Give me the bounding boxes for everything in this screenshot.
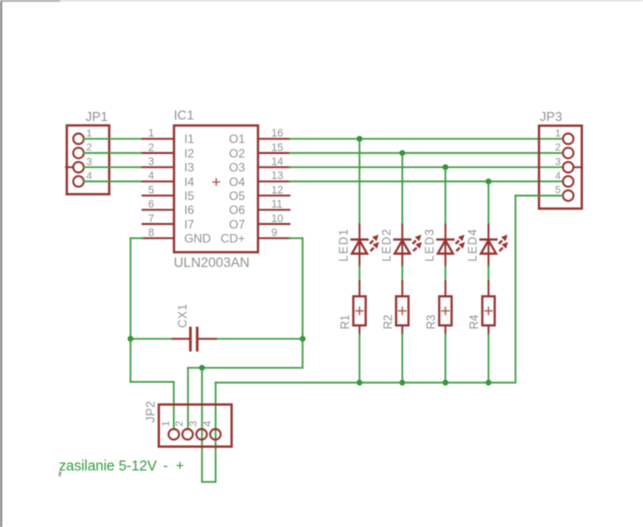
IC1 pin 13 (O4) — [229, 170, 290, 189]
svg-text:O4: O4 — [229, 175, 245, 189]
junction node bus/R2 — [399, 380, 405, 386]
wire net O1 down to LED1 — [359, 139, 361, 225]
LED LED3 — [437, 225, 465, 267]
svg-text:2: 2 — [86, 142, 92, 154]
wire IC1 O4 to JP3 pin 4 — [290, 180, 563, 182]
net label zasilanie 5-12V - + — [59, 459, 184, 475]
svg-text:5: 5 — [555, 184, 561, 196]
svg-text:I7: I7 — [184, 217, 194, 231]
svg-text:14: 14 — [271, 156, 283, 168]
IC1 pin 7 (I7) — [143, 213, 195, 232]
svg-text:I2: I2 — [184, 146, 194, 160]
wire LED4 to R4 — [488, 266, 490, 281]
svg-text:LED2: LED2 — [381, 228, 393, 262]
LED LED1 — [352, 225, 380, 267]
junction node LED2 branch — [399, 150, 405, 156]
svg-text:LED4: LED4 — [468, 228, 480, 262]
svg-text:3: 3 — [188, 421, 200, 427]
svg-text:R4: R4 — [469, 314, 481, 329]
junction node LED4 branch — [486, 179, 492, 185]
svg-text:1: 1 — [555, 127, 561, 139]
svg-text:11: 11 — [271, 199, 282, 211]
IC1 pin 14 (O3) — [229, 156, 290, 175]
svg-text:CX1: CX1 — [178, 303, 190, 327]
IC1 pin 3 (I3) — [143, 156, 195, 175]
capacitor CX1 — [173, 328, 216, 350]
svg-text:zasilanie 5-12V: zasilanie 5-12V — [59, 459, 157, 475]
svg-text:O3: O3 — [229, 161, 245, 175]
connector JP2 — [159, 405, 232, 447]
svg-text:2: 2 — [148, 142, 154, 154]
LED LED4 — [481, 225, 509, 267]
wire IC1 O3 to JP3 pin 3 — [290, 166, 563, 168]
svg-text:I5: I5 — [184, 189, 194, 203]
svg-text:LED3: LED3 — [424, 228, 436, 262]
IC IC1 body — [174, 126, 258, 253]
wire IC1 pin 9 CD+ net — [290, 238, 303, 339]
svg-text:I1: I1 — [184, 132, 194, 146]
junction node bus/R4 — [486, 380, 492, 386]
wire JP1 pin 4 to IC1 pin 4 — [84, 180, 143, 182]
svg-text:12: 12 — [271, 184, 283, 196]
svg-text:4: 4 — [555, 170, 561, 182]
IC1 pin 12 (O5) — [229, 184, 290, 203]
svg-text:3: 3 — [148, 156, 154, 168]
junction node bus/R1 — [357, 380, 363, 386]
svg-text:7: 7 — [148, 213, 154, 225]
svg-text:1: 1 — [86, 127, 92, 139]
connector JP1 — [66, 125, 109, 194]
wire junction to JP2 pin 3 — [201, 368, 203, 482]
IC1 pin 4 (I4) — [143, 170, 195, 189]
wire IC1 pin 8 GND to CX1 left — [131, 238, 143, 339]
IC1 origin cross — [213, 179, 219, 185]
svg-text:I4: I4 — [184, 175, 194, 189]
resistor R4 — [482, 281, 494, 334]
wire JP1 pin 3 to IC1 pin 3 — [84, 166, 143, 168]
IC1 pin 6 (I6) — [143, 199, 195, 218]
IC1 pin 11 (O6) — [229, 199, 290, 218]
wire JP1 pin 1 to IC1 pin 1 — [84, 138, 143, 140]
svg-text:8: 8 — [148, 227, 154, 239]
wire JP1 pin 2 to IC1 pin 2 — [84, 152, 143, 154]
IC1 pin 8 (GND) — [143, 227, 212, 246]
svg-text:4: 4 — [148, 170, 154, 182]
LED LED2 — [394, 225, 422, 267]
junction node CD+/CX1 right — [300, 336, 306, 342]
svg-text:5: 5 — [148, 184, 154, 196]
svg-text:10: 10 — [271, 213, 283, 225]
resistor R3 — [439, 281, 451, 334]
IC1 pin 1 (I1) — [143, 128, 195, 147]
svg-text:LED1: LED1 — [339, 228, 351, 262]
wire JP2 pins 3-4 loop — [202, 481, 216, 483]
svg-text:I3: I3 — [184, 161, 194, 175]
wire R3 to cathode bus — [444, 334, 446, 383]
svg-text:CD+: CD+ — [221, 232, 245, 246]
svg-text:JP3: JP3 — [540, 109, 562, 124]
svg-text:6: 6 — [148, 199, 154, 211]
wire IC1 O1 to JP3 pin 1 — [290, 138, 563, 140]
JP1 pin numbers 1-4 — [86, 127, 92, 182]
svg-text:O6: O6 — [229, 203, 245, 217]
svg-text:R1: R1 — [340, 315, 352, 330]
svg-text:+: + — [176, 459, 184, 475]
wire bus up to JP3 pin 5 — [516, 196, 563, 383]
IC1 pin 16 (O1) — [229, 128, 290, 147]
wire net O2 down to LED2 — [401, 153, 403, 225]
svg-text:1: 1 — [148, 128, 154, 140]
svg-text:4: 4 — [86, 170, 92, 182]
svg-text:ULN2003AN: ULN2003AN — [174, 255, 250, 270]
wire CD+ down to JP2 pins 2,3 — [188, 339, 303, 429]
wire R4 to cathode bus — [488, 334, 490, 383]
svg-text:3: 3 — [86, 156, 92, 168]
svg-text:4: 4 — [201, 421, 213, 427]
svg-text:O2: O2 — [229, 146, 245, 160]
wire cathode bus to JP2 pin 4 — [216, 383, 516, 482]
junction node bus/R3 — [443, 380, 449, 386]
svg-text:O7: O7 — [229, 217, 245, 231]
svg-text:O5: O5 — [229, 189, 245, 203]
wire net O4 down to LED4 — [488, 181, 490, 225]
wire IC1 O2 to JP3 pin 2 — [290, 152, 563, 154]
JP2 pin numbers 1-4 — [160, 421, 214, 427]
wire GND down to JP2 pin 1 — [131, 339, 174, 429]
wire R1 to cathode bus — [359, 334, 361, 383]
wire LED3 to R3 — [444, 266, 446, 281]
resistor R1 — [353, 281, 365, 334]
svg-text:I6: I6 — [184, 203, 194, 217]
svg-text:GND: GND — [184, 232, 211, 246]
wire R2 to cathode bus — [401, 334, 403, 383]
IC1 pin 9 (CD+) — [221, 227, 290, 246]
svg-text:13: 13 — [271, 170, 283, 182]
IC1 pin 2 (I2) — [143, 142, 195, 161]
svg-text:R2: R2 — [383, 315, 395, 330]
IC1 pin 15 (O2) — [229, 142, 290, 161]
wire net O3 down to LED3 — [444, 167, 446, 225]
junction node JP2 pin3 branch — [199, 365, 205, 371]
svg-text:2: 2 — [555, 142, 561, 154]
svg-text:16: 16 — [271, 128, 283, 140]
svg-text:1: 1 — [160, 421, 172, 427]
junction node LED1 branch — [357, 136, 363, 142]
svg-text:JP1: JP1 — [86, 109, 108, 124]
wire LED2 to R2 — [401, 266, 403, 281]
svg-text:R3: R3 — [426, 315, 438, 330]
svg-text:2: 2 — [174, 421, 186, 427]
svg-text:JP2: JP2 — [144, 401, 158, 423]
svg-text:-: - — [163, 459, 168, 475]
svg-text:15: 15 — [271, 142, 283, 154]
wire CX1 right lead net — [216, 338, 303, 340]
resistor R2 — [396, 281, 408, 334]
junction node LED3 branch — [443, 164, 449, 170]
IC1 pin 10 (O7) — [229, 213, 290, 232]
svg-text:9: 9 — [271, 227, 277, 239]
wire LED1 to R1 — [359, 266, 361, 281]
connector JP3 — [539, 126, 582, 209]
junction node GND/CX1 left — [128, 336, 134, 342]
IC1 pin 5 (I5) — [143, 184, 195, 203]
svg-text:IC1: IC1 — [174, 108, 194, 123]
svg-text:3: 3 — [555, 156, 561, 168]
JP3 pin numbers 1-5 — [555, 127, 561, 196]
text cursor mark — [59, 471, 62, 477]
svg-text:O1: O1 — [229, 132, 245, 146]
wire CX1 left lead net — [131, 338, 173, 340]
